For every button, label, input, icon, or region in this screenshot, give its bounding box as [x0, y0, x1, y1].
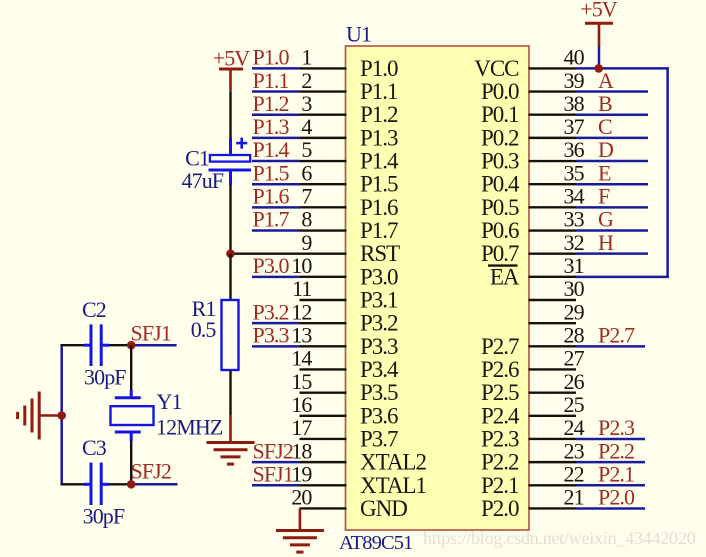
svg-text:5: 5	[301, 137, 312, 162]
pin name P2.6	[481, 357, 519, 382]
svg-text:P1.1: P1.1	[360, 79, 398, 104]
svg-text:26: 26	[564, 369, 585, 394]
net label P2.7	[598, 323, 635, 348]
svg-text:27: 27	[564, 346, 585, 371]
U1 right pin 29 wire	[529, 322, 577, 324]
svg-text:32: 32	[564, 230, 584, 255]
svg-text:E: E	[598, 160, 611, 185]
svg-text:U1: U1	[346, 22, 371, 47]
wire: Y1 down to SFJ2	[130, 441, 132, 484]
svg-text:B: B	[598, 91, 612, 116]
pin number 2	[301, 68, 311, 93]
net label P3.2	[253, 299, 289, 324]
wire: RST node to R1	[229, 254, 231, 300]
svg-text:P3.3: P3.3	[360, 334, 398, 359]
designator C1	[185, 145, 209, 170]
U1 right pin 26 wire	[529, 391, 577, 393]
svg-text:P1.4: P1.4	[360, 149, 399, 174]
svg-text:37: 37	[564, 114, 585, 139]
svg-text:D: D	[598, 137, 613, 162]
U1 right pin 32 wire	[529, 252, 649, 254]
pin number 18	[291, 438, 312, 463]
pin name VCC	[474, 56, 519, 81]
node SFJ1: junction + wire stub	[127, 341, 177, 350]
U1 right pin 39 wire	[529, 90, 649, 92]
U1 right pin 33 wire	[529, 229, 649, 231]
U1 left pin 18 (XTAL2) wire	[252, 461, 347, 464]
ground symbol (left, rotated)	[18, 392, 62, 440]
svg-text:XTAL1: XTAL1	[360, 473, 426, 498]
net label A	[598, 68, 614, 93]
crystal Y1	[111, 390, 154, 441]
wire: +5V to C1	[229, 92, 231, 138]
svg-text:12MHZ: 12MHZ	[156, 415, 223, 440]
svg-text:EA: EA	[490, 264, 520, 289]
svg-text:39: 39	[564, 68, 585, 93]
pin number 6	[301, 160, 312, 185]
U1 right pin 28 wire	[529, 345, 646, 347]
svg-text:P2.4: P2.4	[481, 403, 520, 428]
svg-text:P2.0: P2.0	[598, 485, 635, 510]
svg-text:H: H	[598, 230, 614, 255]
pin name P0.7	[481, 241, 519, 266]
net label SFJ1	[131, 321, 171, 346]
pin name P1.6	[360, 195, 398, 220]
pin number 28	[564, 323, 585, 348]
svg-text:Y1: Y1	[157, 389, 182, 414]
part value AT89C51	[339, 532, 413, 554]
svg-text:P2.3: P2.3	[481, 426, 519, 451]
svg-text:P0.2: P0.2	[481, 125, 519, 150]
U1 left pin 16 (P3.6) wire	[300, 415, 347, 417]
svg-text:P1.7: P1.7	[360, 218, 398, 243]
svg-text:4: 4	[301, 114, 312, 139]
U1 left pin 19 (XTAL1) wire	[252, 484, 347, 487]
svg-text:P1.3: P1.3	[253, 114, 290, 139]
svg-text:13: 13	[291, 323, 312, 348]
pin name P0.5	[481, 195, 519, 220]
pin name P2.7	[481, 334, 519, 359]
pin number 25	[564, 392, 585, 417]
pin number 19	[291, 461, 312, 486]
svg-text:C2: C2	[82, 297, 106, 322]
svg-text:12: 12	[291, 299, 311, 324]
pin name P3.4	[360, 357, 399, 382]
net label G	[598, 207, 614, 232]
pin name P1.0	[360, 56, 398, 81]
pin number 7	[301, 184, 312, 209]
pin name P0.0	[481, 79, 519, 104]
designator U1	[346, 22, 371, 47]
svg-text:30pF: 30pF	[84, 365, 126, 390]
pin number 23	[564, 438, 585, 463]
svg-text:P0.3: P0.3	[481, 149, 519, 174]
U1 right pin 30 wire	[529, 299, 577, 301]
value 47uF	[182, 168, 224, 193]
pin name P2.0	[481, 496, 519, 521]
pin number 27	[564, 346, 585, 371]
U1 right pin 34 wire	[529, 206, 649, 208]
svg-text:P2.1: P2.1	[598, 461, 634, 486]
pin number 29	[564, 299, 585, 324]
svg-text:17: 17	[291, 415, 312, 440]
svg-text:P1.6: P1.6	[360, 195, 398, 220]
+5V label (left)	[213, 46, 251, 71]
svg-text:P2.2: P2.2	[481, 450, 519, 475]
pin number 5	[301, 137, 312, 162]
pin number 37	[564, 114, 585, 139]
svg-text:P0.0: P0.0	[481, 79, 519, 104]
U1 left pin 9 (RST) wire	[231, 252, 347, 254]
pin name XTAL2	[360, 450, 426, 475]
svg-text:36: 36	[564, 137, 585, 162]
pin number 13	[291, 323, 312, 348]
svg-text:P3.4: P3.4	[360, 357, 399, 382]
svg-text:18: 18	[291, 438, 312, 463]
U1 right pin 31 wire	[529, 276, 670, 278]
svg-text:P1.5: P1.5	[253, 160, 290, 185]
svg-text:P2.7: P2.7	[481, 334, 519, 359]
pin number 3	[301, 91, 312, 116]
pin number 8	[301, 207, 312, 232]
net label C	[598, 114, 612, 139]
U1 left pin 11 (P3.1) wire	[300, 299, 347, 301]
pin number 24	[564, 415, 585, 440]
node SFJ2: junction + wire stub	[127, 480, 178, 489]
U1 right pin 35 wire	[529, 183, 649, 185]
svg-text:https://blog.csdn.net/weixin_4: https://blog.csdn.net/weixin_43442020	[423, 528, 696, 548]
junction: RST node	[226, 249, 235, 258]
pin number 1	[301, 45, 311, 70]
svg-text:P3.3: P3.3	[253, 323, 290, 348]
svg-text:P1.6: P1.6	[253, 184, 290, 209]
pin name P0.2	[481, 125, 519, 150]
U1 right pin 23 wire	[529, 461, 646, 463]
svg-text:P2.6: P2.6	[481, 357, 519, 382]
value 12MHZ	[156, 415, 223, 440]
net label P1.7	[253, 207, 290, 232]
power symbol +5V (left, reset rail)	[219, 69, 243, 92]
wire: vertical bus tying pin 40 (VCC) to pin 31 (EA)	[666, 68, 669, 276]
pin name P1.1	[360, 79, 398, 104]
U1 right pin 38 wire	[529, 114, 649, 116]
svg-text:+5V: +5V	[580, 0, 618, 22]
pin name P1.3	[360, 125, 398, 150]
pin number 22	[564, 461, 584, 486]
capacitor C2	[61, 324, 132, 366]
svg-text:P0.5: P0.5	[481, 195, 519, 220]
pin number 39	[564, 68, 585, 93]
net label P2.2	[598, 438, 634, 463]
pin name P1.2	[360, 102, 398, 127]
pin number 40	[564, 45, 585, 70]
svg-text:C1: C1	[185, 145, 209, 170]
pin name P1.4	[360, 149, 399, 174]
pin number 33	[564, 207, 585, 232]
capacitor C3	[61, 463, 132, 505]
svg-text:11: 11	[292, 276, 311, 301]
svg-text:P1.4: P1.4	[253, 137, 290, 162]
pin name RST	[360, 241, 400, 266]
svg-text:P1.3: P1.3	[360, 125, 398, 150]
net label P1.6	[253, 184, 290, 209]
pin name P3.3	[360, 334, 398, 359]
pin name P2.3	[481, 426, 519, 451]
pin name P2.5	[481, 380, 519, 405]
pin name P0.1	[481, 102, 519, 127]
pin name P0.3	[481, 149, 519, 174]
svg-text:16: 16	[291, 392, 312, 417]
svg-text:P3.2: P3.2	[253, 299, 289, 324]
svg-text:P2.7: P2.7	[598, 323, 635, 348]
svg-text:P2.0: P2.0	[481, 496, 519, 521]
svg-text:P0.6: P0.6	[481, 218, 519, 243]
U1 left pin 14 (P3.4) wire	[300, 368, 347, 370]
svg-text:P3.0: P3.0	[360, 264, 398, 289]
pin number 21	[564, 485, 584, 510]
svg-text:30: 30	[564, 276, 585, 301]
wire: left vertical rail joining C2/C3	[60, 345, 63, 484]
U1 left pin 12 (P3.2) wire	[252, 322, 347, 325]
designator C3	[82, 435, 107, 460]
svg-text:P3.5: P3.5	[360, 380, 398, 405]
pin number 36	[564, 137, 585, 162]
svg-text:2: 2	[301, 68, 311, 93]
pin number 38	[564, 91, 585, 116]
svg-text:15: 15	[291, 369, 312, 394]
svg-text:P3.0: P3.0	[253, 253, 290, 278]
pin number 35	[564, 160, 585, 185]
svg-text:RST: RST	[360, 241, 400, 266]
svg-text:30pF: 30pF	[83, 504, 125, 529]
pin name P0.4	[481, 172, 520, 197]
pin number 30	[564, 276, 585, 301]
net label P2.0	[598, 485, 635, 510]
svg-text:P3.1: P3.1	[360, 288, 398, 313]
svg-text:VCC: VCC	[474, 56, 519, 81]
pin name P3.1	[360, 288, 398, 313]
svg-text:P1.1: P1.1	[253, 68, 289, 93]
pin number 4	[301, 114, 312, 139]
svg-text:1: 1	[301, 45, 311, 70]
svg-text:35: 35	[564, 160, 585, 185]
U1 left pin 5 (P1.4) wire	[252, 160, 347, 163]
net label SFJ2	[131, 458, 171, 483]
pin number 10	[291, 253, 312, 278]
designator R1	[192, 296, 216, 321]
pin name P1.5	[360, 172, 398, 197]
wire: R1 to ground	[229, 370, 231, 416]
pin number 31	[564, 253, 584, 278]
power symbol +5V (right, on VCC pin 40)	[585, 23, 613, 68]
svg-text:23: 23	[564, 438, 585, 463]
svg-text:P0.4: P0.4	[481, 172, 520, 197]
pin name P2.2	[481, 450, 519, 475]
svg-text:47uF: 47uF	[182, 168, 224, 193]
net label P1.3	[253, 114, 290, 139]
svg-text:6: 6	[301, 160, 312, 185]
net label P1.4	[253, 137, 290, 162]
svg-text:P2.5: P2.5	[481, 380, 519, 405]
pin number 32	[564, 230, 584, 255]
pin number 26	[564, 369, 585, 394]
net label P3.3	[253, 323, 290, 348]
U1 right pin 22 wire	[529, 484, 646, 486]
U1 right pin 36 wire	[529, 160, 649, 162]
net label SFJ1	[253, 461, 293, 486]
svg-text:GND: GND	[360, 496, 407, 521]
svg-text:SFJ2: SFJ2	[131, 458, 171, 483]
svg-text:SFJ1: SFJ1	[131, 321, 171, 346]
svg-text:P3.2: P3.2	[360, 311, 398, 336]
svg-text:+5V: +5V	[213, 46, 251, 71]
svg-text:34: 34	[564, 184, 585, 209]
pin number 14	[291, 346, 312, 371]
net label D	[598, 137, 613, 162]
pin number 17	[291, 415, 312, 440]
pin name P3.7	[360, 426, 398, 451]
U1 left pin 17 (P3.7) wire	[300, 438, 347, 440]
svg-text:8: 8	[301, 207, 312, 232]
svg-text:F: F	[598, 184, 610, 209]
pin name P2.1	[481, 473, 519, 498]
net label P2.1	[598, 461, 634, 486]
net label P1.1	[253, 68, 289, 93]
svg-text:31: 31	[564, 253, 584, 278]
net label P3.0	[253, 253, 290, 278]
junction: ground tap on rail	[57, 411, 66, 420]
pin number 20	[291, 485, 312, 510]
svg-text:P2.1: P2.1	[481, 473, 519, 498]
wire: SFJ1 down to Y1	[130, 345, 132, 390]
svg-text:P2.3: P2.3	[598, 415, 635, 440]
svg-text:40: 40	[564, 45, 585, 70]
pin number 15	[291, 369, 312, 394]
pin number 12	[291, 299, 311, 324]
U1 left pin 10 (P3.0) wire	[252, 276, 347, 279]
designator C2	[82, 297, 106, 322]
pin name EA (active low, overline)	[488, 264, 520, 289]
U1 left pin 6 (P1.5) wire	[252, 183, 347, 186]
U1 left pin 8 (P1.7) wire	[252, 229, 347, 232]
U1 right pin 21 wire	[529, 507, 646, 509]
wire: C1 to RST node	[229, 185, 231, 254]
svg-text:19: 19	[291, 461, 312, 486]
U1 left pin 2 (P1.1) wire	[252, 90, 347, 93]
net label SFJ2	[253, 438, 293, 463]
U1 right pin 25 wire	[529, 415, 577, 417]
svg-text:29: 29	[564, 299, 585, 324]
svg-text:P3.7: P3.7	[360, 426, 398, 451]
pin name XTAL1	[360, 473, 426, 498]
svg-text:22: 22	[564, 461, 584, 486]
watermark text	[423, 528, 696, 548]
svg-text:25: 25	[564, 392, 585, 417]
U1 right pin 24 wire	[529, 438, 646, 440]
svg-text:20: 20	[291, 485, 312, 510]
pin number 34	[564, 184, 585, 209]
svg-text:P1.2: P1.2	[253, 91, 289, 116]
net label P2.3	[598, 415, 635, 440]
svg-text:P3.6: P3.6	[360, 403, 398, 428]
pin name P0.6	[481, 218, 519, 243]
svg-text:21: 21	[564, 485, 584, 510]
net label B	[598, 91, 612, 116]
resistor R1	[222, 300, 239, 370]
svg-text:P1.0: P1.0	[253, 45, 290, 70]
svg-text:SFJ2: SFJ2	[253, 438, 293, 463]
net label F	[598, 184, 610, 209]
pin name P3.0	[360, 264, 398, 289]
designator Y1	[157, 389, 182, 414]
svg-text:10: 10	[291, 253, 312, 278]
op-amp-style IC body: microcontroller U1 AT89C51	[346, 46, 530, 530]
U1 left pin 4 (P1.3) wire	[252, 137, 347, 140]
svg-text:XTAL2: XTAL2	[360, 450, 426, 475]
pin name P1.7	[360, 218, 398, 243]
svg-text:P1.7: P1.7	[253, 207, 290, 232]
U1 left pin 13 (P3.3) wire	[252, 345, 347, 348]
U1 right pin 40 wire	[529, 67, 670, 69]
svg-text:P0.1: P0.1	[481, 102, 519, 127]
value 30pF (C3)	[83, 504, 125, 529]
svg-text:C: C	[598, 114, 612, 139]
U1 left pin 1 (P1.0) wire	[252, 67, 347, 70]
svg-text:7: 7	[301, 184, 312, 209]
U1 right pin 27 wire	[529, 368, 577, 370]
value 30pF (C2)	[84, 365, 126, 390]
svg-text:P1.0: P1.0	[360, 56, 398, 81]
svg-text:14: 14	[291, 346, 312, 371]
svg-text:C3: C3	[82, 435, 107, 460]
net label P1.5	[253, 160, 290, 185]
pin name P2.4	[481, 403, 520, 428]
svg-text:P0.7: P0.7	[481, 241, 519, 266]
U1 right pin 37 wire	[529, 137, 649, 139]
capacitor C1 (polarized 47uF)	[209, 138, 252, 185]
svg-text:AT89C51: AT89C51	[339, 532, 413, 554]
svg-text:P2.2: P2.2	[598, 438, 634, 463]
svg-text:SFJ1: SFJ1	[253, 461, 293, 486]
svg-text:0.5: 0.5	[191, 317, 217, 342]
svg-text:24: 24	[564, 415, 585, 440]
svg-text:3: 3	[301, 91, 312, 116]
svg-text:P1.5: P1.5	[360, 172, 398, 197]
net label P1.0	[253, 45, 290, 70]
net label P1.2	[253, 91, 289, 116]
pin number 16	[291, 392, 312, 417]
pin name P3.6	[360, 403, 398, 428]
net label E	[598, 160, 611, 185]
ground symbol (below R1)	[207, 416, 255, 465]
svg-text:9: 9	[301, 230, 312, 255]
pin name P3.2	[360, 311, 398, 336]
svg-text:33: 33	[564, 207, 585, 232]
pin name P3.5	[360, 380, 398, 405]
U1 left pin 20 (GND) wire	[300, 507, 347, 509]
ground symbol (GND pin 20)	[276, 508, 324, 552]
U1 left pin 3 (P1.2) wire	[252, 113, 347, 116]
pin name GND	[360, 496, 407, 521]
pin number 11	[292, 276, 311, 301]
svg-text:P1.2: P1.2	[360, 102, 398, 127]
value 0.5	[191, 317, 217, 342]
U1 left pin 15 (P3.5) wire	[300, 391, 347, 393]
svg-text:28: 28	[564, 323, 585, 348]
net label H	[598, 230, 614, 255]
junction: VCC node	[594, 64, 603, 73]
+5V label (right)	[580, 0, 618, 22]
